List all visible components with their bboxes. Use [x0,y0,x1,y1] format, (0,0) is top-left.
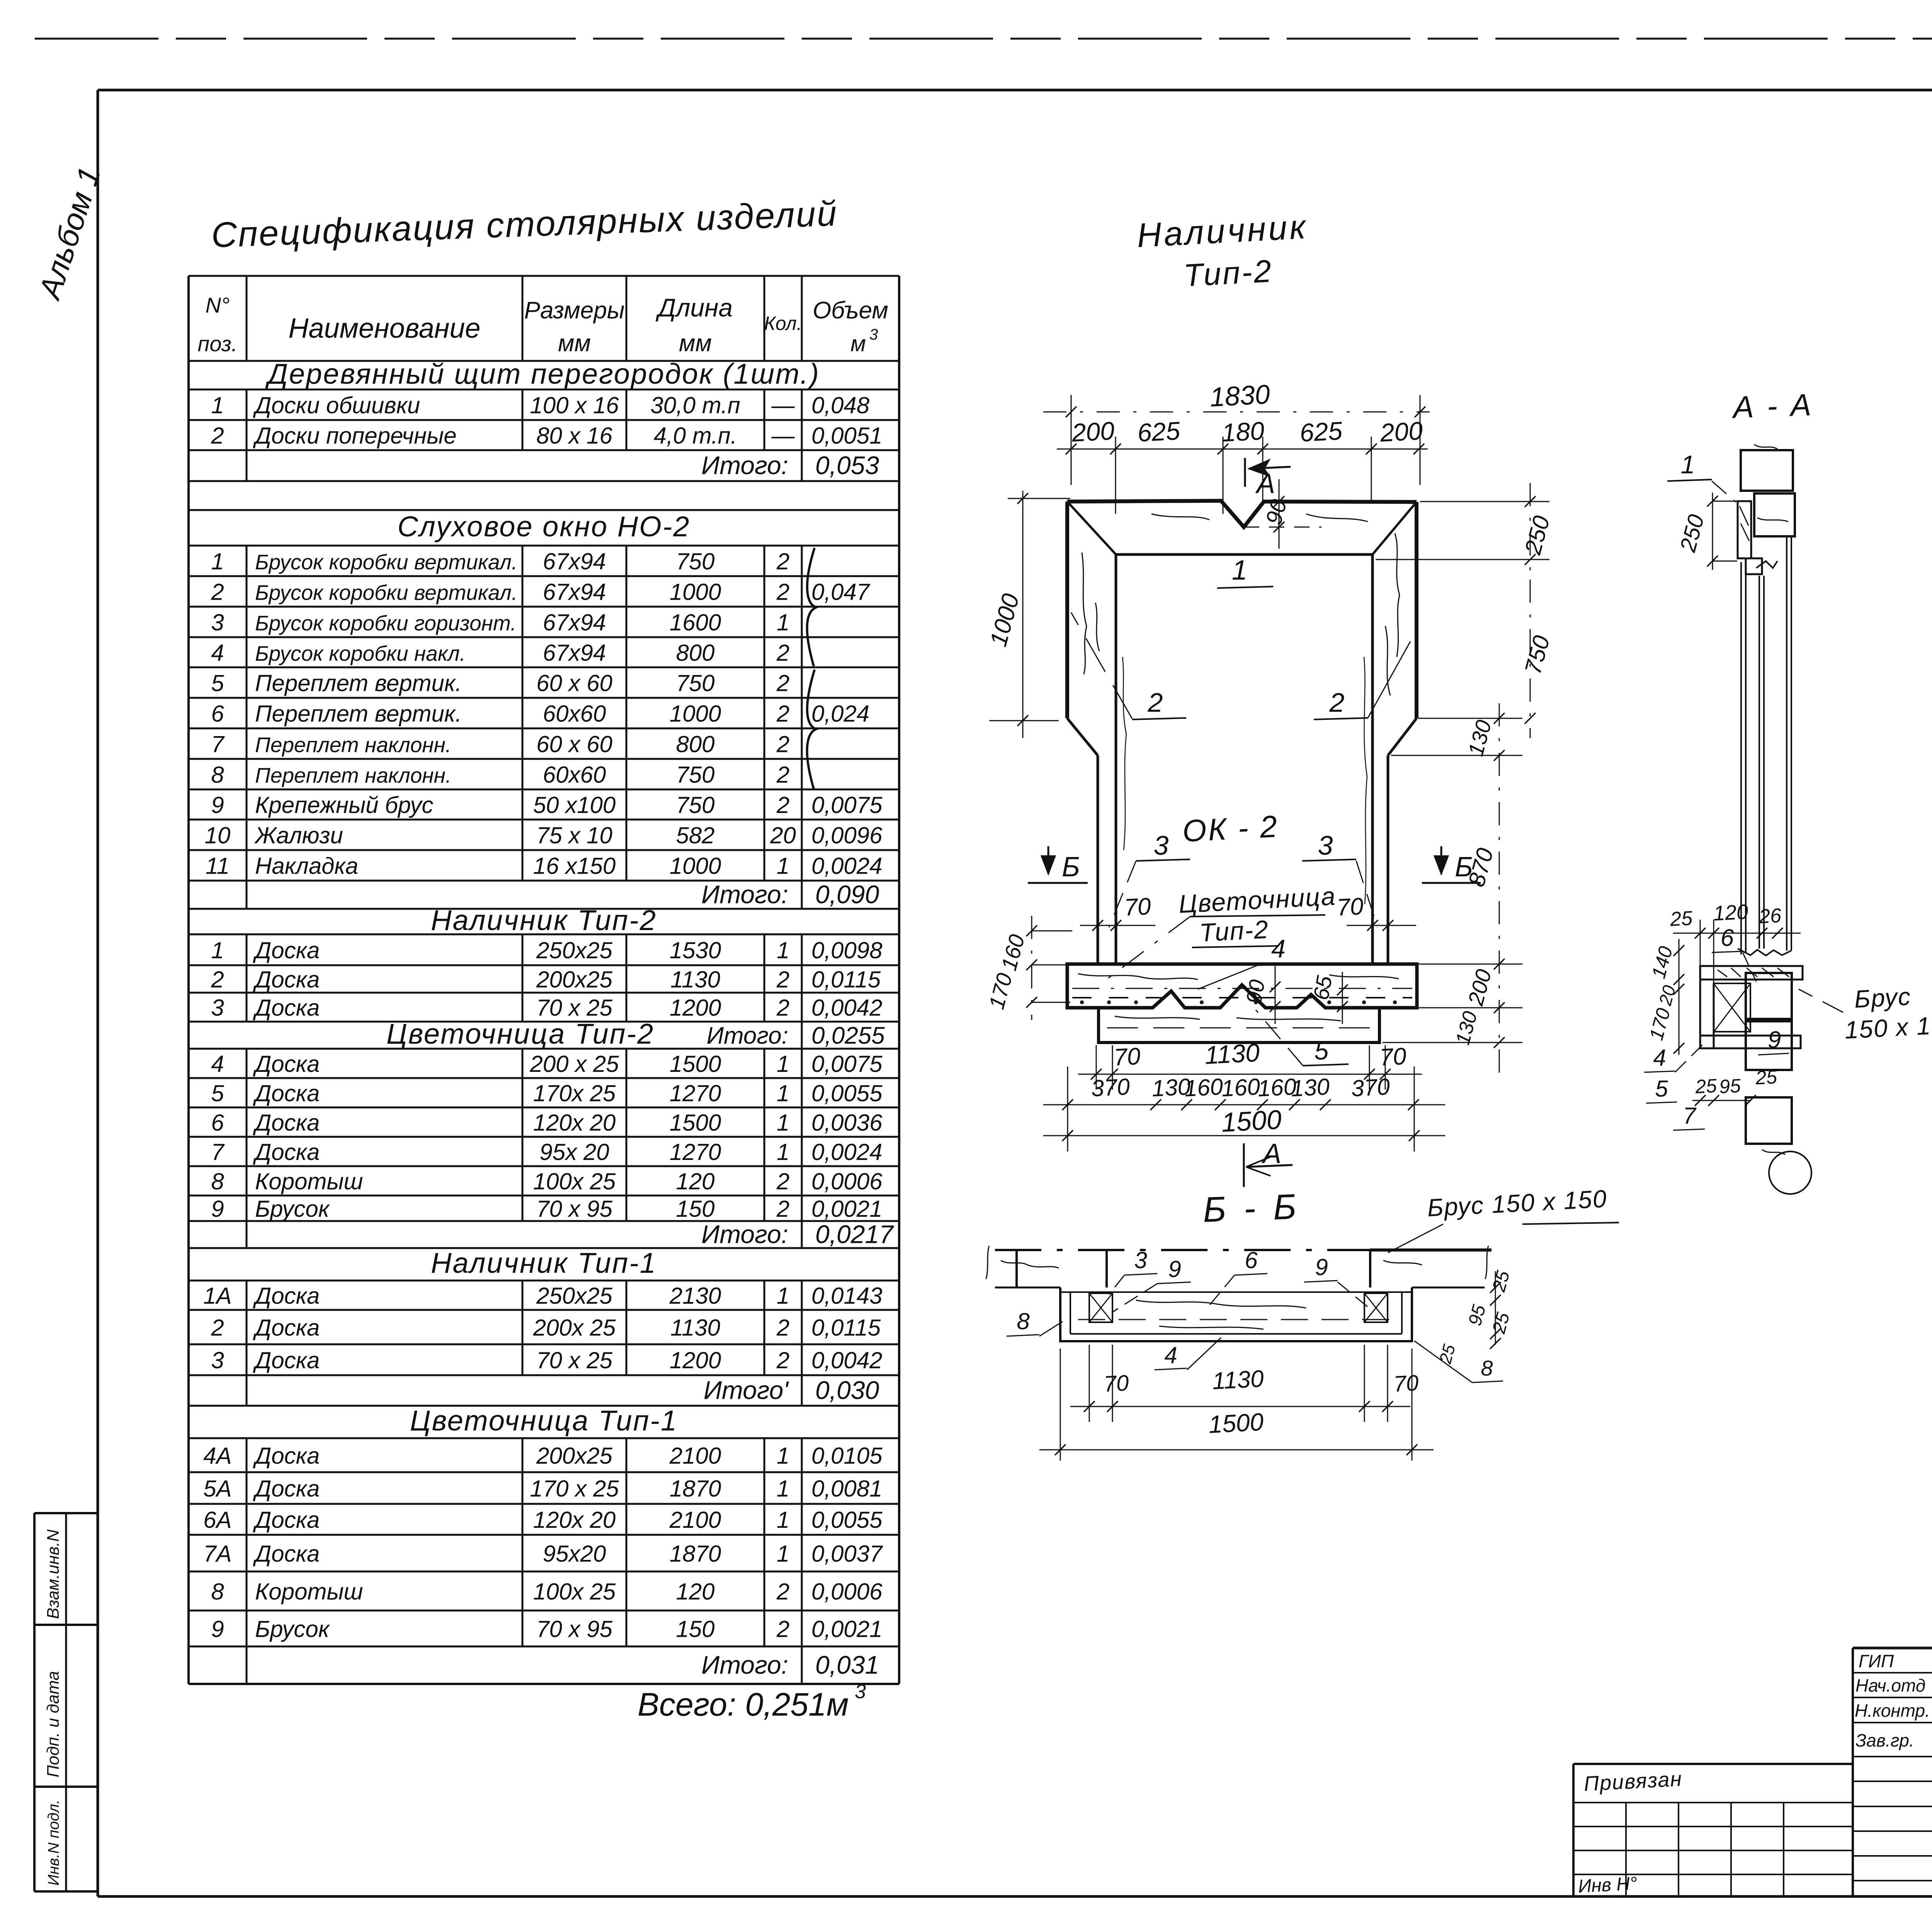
svg-text:Итого:: Итого: [707,1022,788,1049]
svg-text:Длина: Длина [655,293,733,322]
svg-text:7: 7 [211,1139,225,1165]
svg-text:6: 6 [1721,925,1734,951]
svg-text:Деревянный щит перегородок (1: Деревянный щит перегородок (1шт.) [265,358,820,390]
svg-text:50 х100: 50 х100 [533,792,616,818]
svg-text:4: 4 [1271,934,1286,963]
svg-text:370: 370 [1090,1073,1130,1101]
svg-text:4: 4 [1653,1045,1666,1071]
svg-text:0,0006: 0,0006 [811,1168,883,1194]
svg-text:А: А [1255,468,1275,499]
svg-text:8: 8 [211,1168,224,1194]
svg-text:0,031: 0,031 [815,1651,879,1679]
svg-text:800: 800 [676,731,714,757]
svg-text:9: 9 [1315,1254,1328,1280]
svg-text:1: 1 [777,610,789,636]
svg-text:170х 25: 170х 25 [533,1080,616,1106]
svg-text:60х60: 60х60 [543,762,606,788]
svg-text:25: 25 [1755,1066,1778,1089]
svg-text:60 х 60: 60 х 60 [536,670,612,696]
svg-text:5: 5 [211,670,224,696]
svg-text:1500: 1500 [670,1110,721,1136]
svg-text:9: 9 [211,1616,224,1642]
svg-text:Тип-2: Тип-2 [1183,253,1274,293]
svg-text:0,0036: 0,0036 [811,1110,883,1136]
svg-text:2: 2 [776,579,789,605]
svg-text:Итого:: Итого: [701,1220,788,1248]
svg-text:0,030: 0,030 [815,1376,879,1405]
svg-text:3: 3 [211,1347,224,1373]
svg-text:Брусок коробки вертикал.: Брусок коробки вертикал. [255,581,517,605]
svg-text:4А: 4А [203,1443,231,1469]
svg-text:3: 3 [211,995,224,1021]
svg-text:Брусок коробки накл.: Брусок коробки накл. [255,641,466,665]
svg-text:1000: 1000 [670,853,721,879]
svg-text:1870: 1870 [670,1541,721,1567]
Section A-A casing board [1738,501,1751,558]
svg-text:1130: 1130 [670,967,720,993]
svg-text:1: 1 [777,853,789,879]
Section A-A label 1 with leader [1667,450,1741,506]
svg-text:0,048: 0,048 [811,393,870,418]
Type-2 sill lower box [1099,1008,1379,1043]
svg-text:70 х 95: 70 х 95 [536,1616,612,1642]
Type-2 labels 3 [1109,830,1378,927]
Type-2 bottom chain 1500 [1043,1066,1445,1151]
svg-text:120: 120 [1713,900,1748,925]
svg-text:180: 180 [1221,416,1265,447]
svg-text:5А: 5А [203,1476,231,1502]
svg-text:Коротыш: Коротыш [255,1168,363,1194]
svg-text:750: 750 [676,762,714,788]
svg-text:0,0115: 0,0115 [811,967,881,993]
svg-text:2: 2 [776,1168,789,1194]
Type-2 left sill dims 160 170 [984,916,1072,1020]
Section B-B flower box [1060,1287,1412,1341]
Type-2 casing outline [1067,501,1417,964]
svg-text:9: 9 [1768,1027,1781,1053]
svg-text:160: 160 [1221,1073,1260,1101]
svg-text:мм: мм [679,330,712,357]
privyazan box [1573,1764,1853,1897]
svg-text:60х60: 60х60 [543,701,606,727]
svg-text:100 х 16: 100 х 16 [530,393,619,418]
svg-text:1: 1 [777,1507,789,1533]
svg-text:120: 120 [676,1168,714,1194]
Type-2 tooth dims 90 65 [1241,966,1348,1024]
svg-text:3: 3 [211,610,224,636]
svg-text:Цветочница Тип-2: Цветочница Тип-2 [386,1018,654,1050]
svg-text:150: 150 [676,1196,714,1222]
Section A-A dims 25 120 26 [1669,900,1801,983]
svg-text:67х94: 67х94 [543,640,606,666]
svg-text:67х94: 67х94 [543,579,606,605]
svg-text:Б - Б: Б - Б [1202,1187,1301,1230]
svg-text:Коротыш: Коротыш [255,1579,363,1605]
svg-text:2: 2 [776,549,789,575]
svg-text:1: 1 [777,1080,789,1106]
svg-text:Доска: Доска [253,1347,320,1373]
svg-text:0,0006: 0,0006 [811,1579,883,1605]
svg-text:Брусок коробки горизонт.: Брусок коробки горизонт. [255,611,516,635]
svg-text:Итого:: Итого: [701,880,788,909]
top paper edge dashed line [35,38,1932,40]
svg-text:1: 1 [777,1110,789,1136]
svg-text:65: 65 [1308,974,1337,1002]
svg-text:3: 3 [869,326,878,343]
svg-text:1000: 1000 [670,579,721,605]
svg-text:625: 625 [1299,416,1343,447]
svg-text:Брусок: Брусок [255,1196,330,1222]
svg-text:200: 200 [1071,416,1115,447]
Section B-B wall and beams [986,1246,1492,1287]
svg-text:0,0021: 0,0021 [811,1616,883,1642]
Type-2 label 5 [1256,1010,1349,1066]
svg-text:0,0051: 0,0051 [811,423,883,449]
svg-text:А - А: А - А [1731,387,1814,424]
svg-text:200х25: 200х25 [536,967,612,993]
svg-text:0,090: 0,090 [815,880,879,909]
svg-text:1830: 1830 [1209,379,1271,412]
svg-text:75 х 10: 75 х 10 [536,823,612,849]
svg-text:1200: 1200 [670,995,721,1021]
svg-text:1: 1 [777,1139,789,1165]
svg-text:4: 4 [211,1051,224,1077]
svg-text:Жалюзи: Жалюзи [254,823,343,849]
svg-text:8: 8 [1017,1308,1030,1334]
svg-text:1А: 1А [203,1283,231,1309]
svg-text:0,047: 0,047 [811,579,871,605]
Section A-A label 6 [1712,925,1756,981]
svg-text:2: 2 [776,792,789,818]
svg-text:1: 1 [777,1476,789,1502]
svg-text:30,0 т.п: 30,0 т.п [650,393,740,418]
svg-text:1600: 1600 [670,610,721,636]
svg-text:70 х 25: 70 х 25 [536,995,612,1021]
Type-2 bottom chain 370 130 160 160 160 130 370 [1043,1073,1445,1110]
svg-text:Брус: Брус [1854,982,1912,1013]
svg-text:2100: 2100 [669,1443,721,1469]
Section B-B bottom dims [1039,1345,1434,1461]
Type-2 notch dimension 90 [1244,479,1321,549]
svg-text:Доски обшивки: Доски обшивки [253,393,420,418]
svg-text:2: 2 [776,731,789,757]
svg-text:10: 10 [205,823,231,849]
svg-text:1: 1 [777,1283,789,1309]
specification table title [211,194,838,255]
svg-text:16 х150: 16 х150 [533,853,616,879]
Section B-B title [1202,1187,1301,1230]
svg-text:2: 2 [776,670,789,696]
svg-text:6: 6 [1245,1247,1258,1273]
svg-text:2100: 2100 [669,1507,721,1533]
volume group brace 0,024 [807,670,816,789]
grand total below table [638,1680,866,1723]
svg-text:5: 5 [1655,1076,1668,1102]
Section A-A circle marker [1769,1151,1811,1194]
svg-text:7: 7 [211,731,225,757]
svg-text:1: 1 [777,937,789,963]
svg-text:6А: 6А [203,1507,231,1533]
svg-text:Слуховое окно НО-2: Слуховое окно НО-2 [398,510,690,543]
svg-text:Крепежный брус: Крепежный брус [255,792,433,818]
svg-text:67х94: 67х94 [543,610,606,636]
svg-text:Всего: 0,251м: Всего: 0,251м [638,1686,849,1723]
svg-text:26: 26 [1758,905,1782,928]
svg-text:Брусок: Брусок [255,1616,330,1642]
svg-text:150: 150 [676,1616,714,1642]
Section A-A wall beam top [1741,444,1795,536]
Type-2 bottom section arrow A [1244,1138,1293,1187]
svg-text:1500: 1500 [1221,1104,1282,1138]
svg-text:2: 2 [211,423,224,449]
Type-2 top dimension chain 200 625 180 625 200 [1057,416,1428,514]
Type-2 section markers B [1028,846,1481,883]
svg-text:1000: 1000 [670,701,721,727]
svg-text:95х 20: 95х 20 [539,1139,609,1165]
svg-text:Переплет вертик.: Переплет вертик. [255,701,462,727]
Type-2 view title [1136,207,1309,293]
svg-text:Накладка: Накладка [255,853,358,879]
svg-text:Кол.: Кол. [764,313,802,334]
svg-text:80 х 16: 80 х 16 [536,423,612,449]
svg-text:0,0075: 0,0075 [811,792,883,818]
svg-text:4,0 т.п.: 4,0 т.п. [654,423,737,449]
svg-text:Доска: Доска [253,1110,320,1136]
svg-text:0,0098: 0,0098 [811,937,883,963]
svg-text:70 х 25: 70 х 25 [536,1347,612,1373]
Type-2 right dim chain 130 870 200 130 [1383,703,1536,1082]
svg-text:1130: 1130 [1212,1366,1265,1395]
svg-text:Тип-2: Тип-2 [1199,915,1269,947]
svg-text:Доски поперечные: Доски поперечные [253,423,457,449]
Section A-A brus note [1799,982,1932,1044]
svg-text:200х 25: 200х 25 [533,1315,616,1341]
svg-text:170 х 25: 170 х 25 [530,1476,619,1502]
svg-text:Доска: Доска [253,1315,320,1341]
svg-text:70 х 95: 70 х 95 [536,1196,612,1222]
Section B-B right dims [1414,1269,1514,1383]
svg-text:750: 750 [676,549,714,575]
svg-text:ОК - 2: ОК - 2 [1182,809,1279,849]
svg-text:0,0024: 0,0024 [811,853,883,879]
svg-text:Доска: Доска [253,1139,320,1165]
svg-text:6: 6 [211,1110,224,1136]
svg-text:Доска: Доска [253,1051,320,1077]
svg-text:20: 20 [770,823,796,849]
svg-text:Доска: Доска [253,995,320,1021]
svg-text:100х 25: 100х 25 [533,1579,616,1605]
svg-text:1270: 1270 [670,1139,721,1165]
svg-text:2: 2 [776,762,789,788]
svg-text:120х 20: 120х 20 [533,1110,616,1136]
svg-text:Взам.инв.N: Взам.инв.N [44,1529,63,1619]
Section A-A dim 250 [1675,493,1737,570]
svg-text:90: 90 [1241,978,1269,1005]
volume group brace 0,047 [807,548,816,666]
Section B-B labels [1007,1247,1374,1370]
svg-text:N°: N° [206,293,230,317]
svg-text:150 х 150: 150 х 150 [1844,1010,1932,1044]
svg-text:625: 625 [1137,416,1181,447]
svg-text:Переплет наклонн.: Переплет наклонн. [255,733,451,757]
svg-text:Нач.отд: Нач.отд [1855,1675,1925,1696]
svg-text:Инв Н°: Инв Н° [1578,1873,1638,1897]
svg-text:Доска: Доска [253,1443,320,1469]
svg-text:0,0042: 0,0042 [811,1347,883,1373]
svg-text:1: 1 [777,1443,789,1469]
svg-text:Наличник Тип-1: Наличник Тип-1 [431,1247,657,1279]
svg-text:Итого:: Итого: [701,451,788,480]
svg-text:Доска: Доска [253,967,320,993]
svg-text:м: м [850,331,866,356]
svg-text:—: — [771,393,795,418]
Type-2 top dimension 1830 [1043,379,1430,485]
svg-text:5: 5 [211,1080,224,1106]
svg-text:3: 3 [1318,830,1333,861]
svg-text:100х 25: 100х 25 [533,1168,616,1194]
svg-text:370: 370 [1350,1073,1390,1101]
svg-text:2: 2 [211,967,224,993]
svg-text:0,0105: 0,0105 [811,1443,883,1469]
Section A-A bottom labels 4 5 7 [1644,1039,1778,1130]
svg-text:2: 2 [1148,687,1163,718]
svg-text:0,0075: 0,0075 [811,1051,883,1077]
svg-text:2: 2 [211,1315,224,1341]
svg-text:Подп. и дата: Подп. и дата [44,1671,63,1777]
svg-text:1530: 1530 [670,937,721,963]
svg-text:250х25: 250х25 [536,1283,612,1309]
Type-2 left dim 1000 [985,491,1070,738]
Section A-A left dims 140 20 170 [1645,939,1684,1055]
svg-text:5: 5 [1315,1036,1329,1065]
Type-2 window mark OK-2 [1182,809,1279,849]
svg-text:А: А [1261,1138,1281,1169]
svg-text:2: 2 [776,1196,789,1222]
svg-text:Итого:: Итого: [701,1651,788,1679]
svg-text:95х20: 95х20 [543,1541,606,1567]
Type-2 flower box label [1101,881,1337,989]
Section A-A sill and flower box profile [1700,949,1803,1048]
svg-text:1: 1 [211,937,224,963]
svg-text:Цветочница Тип-1: Цветочница Тип-1 [410,1405,678,1437]
svg-text:поз.: поз. [198,332,238,356]
svg-text:0,0024: 0,0024 [811,1139,883,1165]
svg-text:3: 3 [855,1680,866,1703]
svg-text:9: 9 [211,1196,224,1222]
svg-text:Объем: Объем [813,297,888,324]
Type-2 section arrow A top [1245,458,1291,499]
svg-text:200: 200 [1379,416,1423,447]
svg-text:Размеры: Размеры [524,297,625,324]
svg-text:9: 9 [211,792,224,818]
svg-text:0,0021: 0,0021 [811,1196,883,1222]
title block signature table [1853,1648,1932,1896]
svg-text:2: 2 [776,640,789,666]
svg-text:мм: мм [558,330,591,357]
svg-text:95: 95 [1719,1075,1742,1098]
svg-text:2: 2 [776,1579,789,1605]
specification table grid and rows [189,276,899,1684]
Section A-A window frame verticals [1741,536,1791,954]
svg-text:70: 70 [1124,893,1151,921]
svg-text:Наименование: Наименование [289,313,481,344]
Type-2 sill front board with sawtooth [1067,964,1417,1008]
svg-text:582: 582 [676,823,714,849]
svg-text:800: 800 [676,640,714,666]
svg-text:4: 4 [1164,1342,1177,1368]
svg-text:120: 120 [676,1579,714,1605]
svg-text:1870: 1870 [670,1476,721,1502]
svg-text:25: 25 [1669,907,1694,930]
svg-text:Доска: Доска [253,1476,320,1502]
svg-text:200 х 25: 200 х 25 [529,1051,619,1077]
Section A-A title [1731,387,1814,424]
svg-text:Доска: Доска [253,1283,320,1309]
Type-2 right dim chain 250 750 [1376,483,1555,738]
svg-text:70: 70 [1379,1043,1407,1071]
svg-text:1200: 1200 [670,1347,721,1373]
svg-text:Доска: Доска [253,1080,320,1106]
svg-text:1: 1 [777,1051,789,1077]
svg-text:67х94: 67х94 [543,549,606,575]
svg-text:0,0042: 0,0042 [811,995,883,1021]
Type-2 label 1 [1217,555,1273,588]
svg-text:3: 3 [1134,1247,1147,1273]
svg-text:2: 2 [776,967,789,993]
svg-text:ГИП: ГИП [1859,1651,1894,1671]
svg-text:1: 1 [211,549,224,575]
svg-text:750: 750 [676,792,714,818]
svg-text:11: 11 [206,853,230,879]
svg-text:1: 1 [211,393,224,418]
svg-text:0,0217: 0,0217 [815,1220,894,1248]
svg-text:2: 2 [776,701,789,727]
svg-text:250х25: 250х25 [536,937,612,963]
svg-text:9: 9 [1168,1256,1181,1282]
svg-text:1270: 1270 [670,1080,721,1106]
svg-text:Итого': Итого' [704,1376,789,1405]
svg-text:2: 2 [211,579,224,605]
svg-text:2: 2 [776,1315,789,1341]
svg-text:7: 7 [1683,1103,1697,1129]
svg-text:25: 25 [1694,1075,1718,1098]
Section B-B brus note [1388,1185,1619,1253]
svg-text:2: 2 [1329,687,1345,718]
svg-text:2: 2 [776,995,789,1021]
svg-text:Б: Б [1062,852,1080,883]
Type-2 sill width dims 70 [1080,893,1416,931]
svg-text:2130: 2130 [669,1283,721,1309]
svg-text:Доска: Доска [253,1507,320,1533]
svg-text:Переплет вертик.: Переплет вертик. [255,670,462,696]
svg-text:0,0143: 0,0143 [811,1283,883,1309]
svg-text:Зав.гр.: Зав.гр. [1855,1730,1914,1750]
svg-text:2: 2 [776,1616,789,1642]
svg-text:0,0055: 0,0055 [811,1080,883,1106]
svg-text:60 х 60: 60 х 60 [536,731,612,757]
svg-text:0,0096: 0,0096 [811,823,883,849]
svg-text:4: 4 [211,640,224,666]
svg-text:70: 70 [1113,1043,1141,1071]
svg-text:Инв.N подл.: Инв.N подл. [45,1799,62,1886]
svg-text:2: 2 [776,1347,789,1373]
svg-text:200х25: 200х25 [536,1443,612,1469]
svg-text:1130: 1130 [670,1315,720,1341]
svg-text:750: 750 [676,670,714,696]
svg-text:0,0037: 0,0037 [811,1541,883,1567]
svg-text:—: — [771,423,795,449]
svg-text:Н.контр.: Н.контр. [1855,1701,1930,1721]
